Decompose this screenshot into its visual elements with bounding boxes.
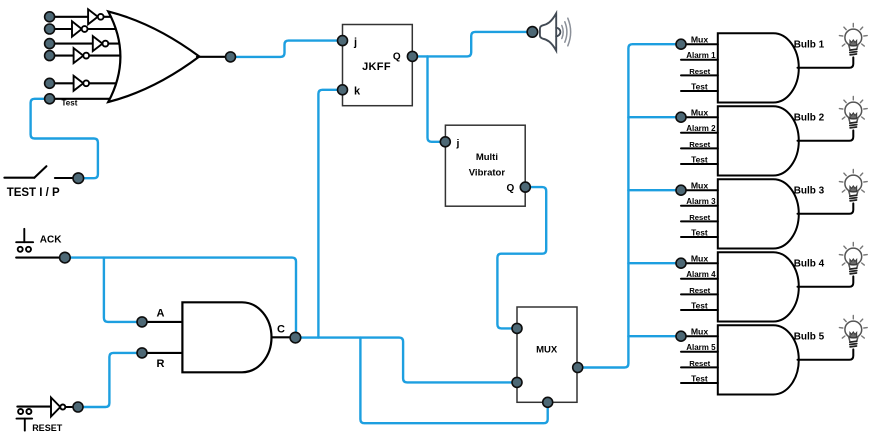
gate G1 input lead Mux bbox=[681, 43, 718, 45]
gate G2 input lead Reset bbox=[681, 147, 718, 149]
node OR input 1 bbox=[45, 12, 55, 22]
node OR input 4 bbox=[45, 51, 55, 61]
OR gate U1 input lead row5 bbox=[50, 82, 74, 84]
svg-text:TEST I / P: TEST I / P bbox=[7, 187, 60, 199]
svg-text:Reset: Reset bbox=[689, 213, 710, 222]
inverter row3 bbox=[93, 36, 103, 51]
bulb B4 bbox=[839, 243, 867, 274]
svg-text:JKFF: JKFF bbox=[362, 61, 391, 73]
node Mux input G5 bbox=[676, 331, 686, 341]
node MV j bbox=[440, 137, 450, 147]
gate G1 input lead Test bbox=[681, 90, 718, 92]
OR gate U1 output lead bbox=[197, 56, 231, 58]
svg-text:RESET: RESET bbox=[32, 423, 63, 433]
OR gate U1 input lead row4 bbox=[50, 55, 74, 57]
svg-text:k: k bbox=[354, 86, 361, 98]
speaker waves bbox=[562, 18, 571, 46]
AND gate U2 input lead A bbox=[142, 321, 182, 323]
svg-text:Test: Test bbox=[691, 81, 708, 91]
wire ACK to C node bbox=[65, 258, 296, 338]
gate G3 input lead Reset bbox=[681, 220, 718, 222]
svg-text:Mux: Mux bbox=[691, 327, 709, 337]
gate G5 input lead Alarm 5 bbox=[681, 351, 718, 353]
JKFF U3 box bbox=[343, 25, 413, 106]
node Mux input G2 bbox=[676, 112, 686, 122]
wire gate G3 output to bulb B3 bbox=[798, 203, 854, 213]
gate G4 input lead Alarm 4 bbox=[681, 278, 718, 280]
node Mux input G1 bbox=[676, 39, 686, 49]
gate G3 input lead Alarm 3 bbox=[681, 205, 718, 207]
svg-text:Bulb 4: Bulb 4 bbox=[794, 258, 825, 269]
inverter row1 bbox=[72, 9, 108, 91]
node ACK bbox=[60, 252, 71, 263]
gate G1 input lead Alarm 1 bbox=[681, 59, 718, 61]
svg-text:Mux: Mux bbox=[691, 108, 709, 118]
svg-text:j: j bbox=[353, 37, 357, 49]
node JKFF j bbox=[338, 36, 348, 46]
inverter RESET bbox=[51, 398, 74, 417]
svg-text:Test: Test bbox=[691, 300, 708, 310]
bulb B5 bbox=[839, 316, 867, 347]
bulb B1 bbox=[839, 24, 867, 55]
svg-text:j: j bbox=[456, 137, 460, 149]
gate G4 input lead Reset bbox=[681, 293, 718, 295]
gate G5 input lead Test bbox=[681, 382, 718, 384]
node OR output bbox=[226, 52, 236, 62]
wire JKFF Q branch to MultiVibrator j bbox=[428, 56, 446, 141]
node MUX bottom bbox=[543, 397, 553, 407]
wire MUX right pin to Mux bus bbox=[578, 44, 681, 367]
node OR input 5 bbox=[45, 78, 55, 88]
node OR input 3 bbox=[45, 39, 55, 49]
wire Mux bus branch gate4 bbox=[628, 262, 681, 264]
node MUX right bbox=[573, 363, 583, 373]
node MV Q bbox=[520, 182, 530, 192]
svg-text:Alarm 2: Alarm 2 bbox=[686, 124, 716, 133]
svg-text:ACK: ACK bbox=[40, 234, 62, 245]
svg-text:MUX: MUX bbox=[536, 345, 558, 356]
switch TEST I/P bbox=[4, 166, 74, 178]
wire Mux bus branch gate5 bbox=[628, 335, 681, 337]
gate G3 input lead Mux bbox=[681, 189, 718, 191]
svg-text:Bulb 3: Bulb 3 bbox=[794, 185, 825, 196]
node A bbox=[137, 317, 147, 327]
bulb B2 bbox=[839, 97, 867, 128]
inverter row2 bbox=[72, 21, 82, 36]
OR gate U1 Test input lead row6 bbox=[50, 98, 118, 100]
wire gate G5 output to bulb B5 bbox=[798, 349, 854, 359]
OR gate U1 input lead row1 bbox=[50, 17, 122, 99]
svg-text:Reset: Reset bbox=[689, 286, 710, 295]
svg-text:Test: Test bbox=[691, 154, 708, 164]
svg-text:Q: Q bbox=[507, 183, 515, 194]
svg-text:Reset: Reset bbox=[689, 140, 710, 149]
svg-text:R: R bbox=[157, 358, 165, 370]
gate G2 input lead Test bbox=[681, 163, 718, 165]
gate G5 input lead Mux bbox=[681, 335, 718, 337]
wire gate G2 output to bulb B2 bbox=[798, 130, 854, 140]
node JKFF Q bbox=[407, 51, 417, 61]
node Mux input G3 bbox=[676, 185, 686, 195]
OR gate U1 body bbox=[108, 11, 199, 102]
svg-text:Multi: Multi bbox=[476, 152, 498, 163]
svg-text:Mux: Mux bbox=[691, 181, 709, 191]
svg-text:Bulb 1: Bulb 1 bbox=[794, 39, 825, 50]
node JKFF k bbox=[338, 85, 348, 95]
AND gate G4 body bbox=[718, 252, 799, 321]
Multi Vibrator U4 box bbox=[445, 125, 525, 206]
bulb B3 bbox=[839, 170, 867, 201]
svg-text:Alarm 4: Alarm 4 bbox=[686, 270, 716, 279]
node Mux input G4 bbox=[676, 258, 686, 268]
gate G5 input lead Reset bbox=[681, 366, 718, 368]
AND gate G2 body bbox=[718, 106, 799, 175]
wire gate G4 output to bulb B4 bbox=[798, 276, 854, 286]
AND gate U2 output lead C bbox=[272, 336, 296, 338]
switch ACK bbox=[16, 229, 60, 258]
node RESET bbox=[73, 402, 83, 412]
svg-text:Bulb 5: Bulb 5 bbox=[794, 331, 825, 342]
svg-text:A: A bbox=[157, 308, 165, 320]
svg-text:Reset: Reset bbox=[689, 67, 710, 76]
wire C node to MUX left-bottom pin bbox=[295, 338, 517, 383]
gate G1 input lead Reset bbox=[681, 74, 718, 76]
wire ACK branch to A input bbox=[104, 258, 142, 322]
svg-text:Mux: Mux bbox=[691, 254, 709, 264]
OR gate U1 input lead row2 bbox=[50, 28, 72, 30]
wire gate G1 output to bulb B1 bbox=[798, 57, 854, 67]
inverter row4 bbox=[74, 48, 84, 63]
OR gate U1 input lead row3 bbox=[50, 43, 93, 45]
gate G2 input lead Mux bbox=[681, 116, 718, 118]
gate G4 input lead Test bbox=[681, 309, 718, 311]
svg-text:Q: Q bbox=[393, 52, 401, 63]
inverter row5 bbox=[74, 76, 84, 91]
AND gate U2 input lead R bbox=[142, 352, 182, 354]
gate G2 input lead Alarm 2 bbox=[681, 132, 718, 134]
node C bbox=[290, 332, 301, 343]
wire RESET inverter to R input bbox=[78, 353, 142, 407]
AND gate G3 body bbox=[718, 179, 799, 248]
alarm gate groups bbox=[676, 24, 867, 395]
node speaker bbox=[527, 27, 538, 38]
MUX U5 box bbox=[517, 307, 577, 402]
node OR Test input bbox=[45, 94, 55, 104]
svg-text:C: C bbox=[277, 324, 285, 336]
speaker LS1 bbox=[540, 13, 560, 50]
gate G3 input lead Test bbox=[681, 236, 718, 238]
svg-text:Test: Test bbox=[691, 227, 708, 237]
wire JKFF k to C net bbox=[318, 90, 342, 338]
AND gate U2 body bbox=[182, 302, 271, 372]
svg-text:Vibrator: Vibrator bbox=[469, 168, 506, 179]
svg-text:Test: Test bbox=[691, 373, 708, 383]
wire Test loop: TEST I/P node to OR Test input bbox=[31, 99, 98, 178]
svg-text:Alarm 3: Alarm 3 bbox=[686, 197, 716, 206]
svg-text:Alarm 1: Alarm 1 bbox=[686, 51, 716, 60]
svg-text:Reset: Reset bbox=[689, 359, 710, 368]
svg-text:Test: Test bbox=[62, 98, 78, 107]
AND gate G1 body bbox=[718, 33, 799, 102]
node MUX left-bottom bbox=[512, 377, 522, 387]
svg-text:Alarm 5: Alarm 5 bbox=[686, 343, 716, 352]
wire Mux bus branch gate2 bbox=[628, 116, 681, 118]
node OR input 2 bbox=[45, 24, 55, 34]
wire JKFF Q to speaker bbox=[412, 32, 532, 57]
node MUX left-top bbox=[512, 323, 522, 333]
svg-text:Bulb 2: Bulb 2 bbox=[794, 112, 825, 123]
AND gate G5 body bbox=[718, 325, 799, 394]
node TEST I/P bbox=[73, 173, 84, 184]
switch RESET bbox=[17, 407, 52, 431]
gate G4 input lead Mux bbox=[681, 262, 718, 264]
node R bbox=[137, 348, 147, 358]
wire MultiVibrator Q to MUX left-top pin bbox=[497, 187, 546, 328]
wire Mux bus branch gate3 bbox=[628, 189, 681, 191]
wire C net branch to MUX bottom pin bbox=[360, 338, 547, 424]
svg-text:Mux: Mux bbox=[691, 35, 709, 45]
wire OR output to JKFF j bbox=[231, 41, 343, 57]
